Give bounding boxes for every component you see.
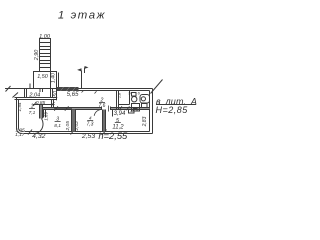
bottom wall slash ticks xyxy=(28,130,107,135)
porch step tick xyxy=(29,84,31,89)
litera underline xyxy=(156,104,196,106)
door leaf into room 5 xyxy=(112,110,114,117)
bottom exterior wall xyxy=(24,132,153,134)
room1 right wall xyxy=(40,105,43,119)
right exterior wall xyxy=(150,89,153,134)
svg-text:2,83: 2,83 xyxy=(142,116,148,127)
hatched thick wall band xyxy=(57,87,79,91)
room3 left wall stub xyxy=(44,110,46,118)
tambour right wall lower stub xyxy=(52,100,54,108)
WC block left wall xyxy=(117,91,119,110)
slash tick left xyxy=(33,102,36,106)
svg-text:5,65: 5,65 xyxy=(67,92,79,98)
wall jog at band left xyxy=(57,72,59,100)
tambour left wall stub xyxy=(25,89,27,98)
toilet bowl xyxy=(132,97,137,102)
toilet tank xyxy=(132,93,137,97)
svg-text:1,50: 1,50 xyxy=(53,91,59,101)
stair landing box xyxy=(34,72,57,89)
corridor bottom wall (rooms 3/4/5 top) xyxy=(40,108,150,110)
boxed litera mark xyxy=(129,110,135,114)
svg-text:1,00: 1,00 xyxy=(39,34,51,40)
corridor bottom wall fill xyxy=(40,108,102,110)
leader line to litera xyxy=(151,80,163,94)
bath drain circle xyxy=(141,97,145,101)
porch slab line xyxy=(5,88,57,90)
rooms 4|5 wall (hatched) xyxy=(103,110,106,132)
svg-text:1,8: 1,8 xyxy=(118,92,122,98)
small tick after 5,65 xyxy=(82,91,84,93)
svg-text:0,85: 0,85 xyxy=(36,100,46,106)
svg-text:2,53: 2,53 xyxy=(81,133,95,140)
stair door ticks xyxy=(40,89,43,93)
small fixture right xyxy=(142,104,148,108)
svg-text:2,02: 2,02 xyxy=(74,121,80,132)
svg-text:1,69: 1,69 xyxy=(43,112,48,121)
flag pole symbol xyxy=(81,71,83,89)
svg-text:3,94: 3,94 xyxy=(114,111,126,117)
door swing arc room 1 xyxy=(33,119,43,134)
WC lower partition line xyxy=(119,104,130,106)
door swing arc into room 4 xyxy=(94,110,101,116)
landing divider xyxy=(50,72,52,89)
porch dim slash tick left xyxy=(6,86,11,92)
WC partition xyxy=(129,91,131,105)
shower tray below toilet xyxy=(132,104,140,112)
svg-text:1,54: 1,54 xyxy=(17,102,22,111)
slash ticks on corridor wall xyxy=(54,106,68,111)
svg-text:1,50: 1,50 xyxy=(37,74,48,80)
svg-text:h=2,55: h=2,55 xyxy=(98,130,128,141)
door opening ticks (corridor to room 5) xyxy=(102,107,111,111)
slash tick right xyxy=(51,102,54,106)
svg-text:2,05: 2,05 xyxy=(65,121,71,132)
svg-text:7,6: 7,6 xyxy=(99,103,106,109)
slash tick at top-left corner xyxy=(13,93,19,98)
top-left building wall xyxy=(15,98,57,100)
svg-text:1,40: 1,40 xyxy=(51,73,57,83)
tambour right wall stub xyxy=(51,89,53,98)
svg-text:2,90: 2,90 xyxy=(34,50,40,62)
rooms 3|4 wall (hatched) xyxy=(72,110,76,132)
staircase rungs xyxy=(40,43,51,68)
svg-text:7,1: 7,1 xyxy=(29,110,36,116)
svg-text:4,32: 4,32 xyxy=(32,133,45,140)
bath fixture xyxy=(140,95,150,104)
small mark near corridor xyxy=(95,91,97,93)
staircase outer box xyxy=(40,39,51,72)
svg-text:8,1: 8,1 xyxy=(54,123,61,129)
small inner sink xyxy=(134,109,138,112)
slash ticks on WC bottom wall xyxy=(119,106,130,110)
door dim line 0,85 xyxy=(33,104,55,106)
svg-text:Н=2,85: Н=2,85 xyxy=(156,105,189,115)
top wall (right section) xyxy=(79,89,153,91)
svg-text:1 этаж: 1 этаж xyxy=(58,9,106,21)
svg-text:5: 5 xyxy=(128,90,131,95)
svg-text:1,17: 1,17 xyxy=(15,132,25,138)
svg-text:7,3: 7,3 xyxy=(87,122,94,128)
left exterior wall with rounded bottom corner xyxy=(17,98,24,134)
svg-text:6: 6 xyxy=(138,90,141,95)
